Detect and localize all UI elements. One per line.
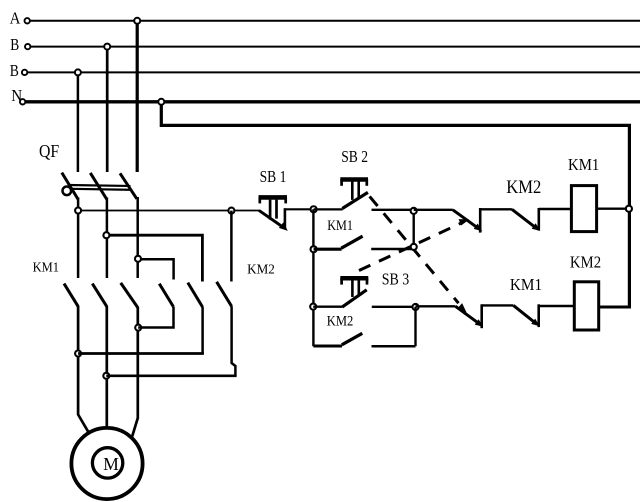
breaker QF pole 2 blade xyxy=(90,173,107,200)
node branch1 right top xyxy=(411,208,417,214)
button SB2 NO blade xyxy=(342,192,368,208)
wire motor link1 xyxy=(78,352,204,355)
node KM2 phase feed tap xyxy=(228,208,234,214)
terminal B xyxy=(25,44,30,49)
wire SB2 to node right xyxy=(372,209,414,211)
wire feed to KM2 pole 4 xyxy=(138,259,173,279)
svg-text:A: A xyxy=(10,9,21,28)
wire coil KM1 to neutral rail xyxy=(597,207,631,209)
wire feed to KM2 pole 6 xyxy=(230,211,233,282)
wire SB1 to node xyxy=(285,208,314,210)
wire to KM2 interlock xyxy=(480,208,512,210)
wire to KM1 aux xyxy=(314,248,342,251)
svg-text:B: B xyxy=(10,61,19,80)
button SB2 cap xyxy=(340,179,368,186)
node on bus C xyxy=(75,69,81,75)
wire to KM1 interlock xyxy=(482,304,514,306)
svg-text:QF: QF xyxy=(39,141,59,161)
wire motor lead left xyxy=(78,415,89,433)
wire branch1 left vertical xyxy=(312,209,314,346)
button SB1 plunger xyxy=(270,200,276,220)
button SB1 right terminal xyxy=(284,208,287,228)
svg-text:KM2: KM2 xyxy=(247,263,275,278)
bus B xyxy=(31,46,640,48)
button SB1 NC blade xyxy=(259,210,288,231)
button SB3 plunger xyxy=(352,280,358,297)
contact SB3 NC blade xyxy=(453,210,483,231)
button SB3 cap xyxy=(340,278,368,285)
contactor KM1 pole2 blade xyxy=(92,284,107,307)
node pole2 tap xyxy=(103,232,109,238)
breaker QF pole 1 blade xyxy=(62,173,78,200)
wire KM2 pole5 bottom xyxy=(201,307,204,354)
wire pole2 down to KM1 contact xyxy=(106,198,109,279)
wire branch1 right vertical xyxy=(413,210,415,249)
interlock contact KM2 NC terminal xyxy=(537,208,540,231)
wire to KM2 aux xyxy=(313,345,342,348)
svg-text:M: M xyxy=(103,454,119,474)
node on bus A xyxy=(134,18,140,24)
node pole3 tap xyxy=(135,256,141,262)
motor M inner circle xyxy=(92,448,122,478)
svg-text:N: N xyxy=(11,86,22,105)
wire pole1 down to KM1 contact xyxy=(77,198,80,279)
contact SB2 NC terminal xyxy=(480,304,483,328)
wire KM2 aux right xyxy=(372,345,416,348)
wire node to SB2 xyxy=(314,208,343,210)
terminal N xyxy=(20,99,25,104)
node branch2 left top xyxy=(310,304,316,310)
svg-text:KM1: KM1 xyxy=(33,259,59,274)
wire phase C drop xyxy=(77,72,80,172)
wire KM1 pole2 bottom xyxy=(105,306,108,429)
wire KM1 pole1 bottom xyxy=(77,306,80,415)
wire branch1 rail to SB3 NC xyxy=(414,209,453,211)
wire KM2 pole4 bottom cross link xyxy=(138,307,173,328)
wire SB3 to node right xyxy=(372,306,416,308)
node KM1 aux left xyxy=(311,246,317,252)
contact SB2 NC blade xyxy=(455,306,483,327)
contact SB3 NC terminal xyxy=(479,208,482,233)
wire control rail from pole1 xyxy=(78,210,259,212)
svg-text:KM2: KM2 xyxy=(570,253,601,272)
node branch2 right top xyxy=(412,304,418,310)
svg-text:KM2: KM2 xyxy=(327,314,354,330)
wire motor link2 xyxy=(106,374,236,377)
motor M outer circle xyxy=(71,428,142,499)
wire node to SB3 xyxy=(313,306,343,308)
contactor KM1 pole3 blade xyxy=(121,283,138,308)
node motor link1 xyxy=(75,351,81,357)
mechanical link SB2 dashed xyxy=(370,196,467,312)
wire branch2 right vertical xyxy=(414,307,416,346)
node branch1 right bottom xyxy=(411,244,417,250)
breaker QF linkage bar xyxy=(69,185,131,190)
svg-text:SB 1: SB 1 xyxy=(260,167,287,186)
svg-text:KM1: KM1 xyxy=(568,155,599,174)
node control tap pole1 xyxy=(75,208,81,214)
interlock contact KM1 NC terminal xyxy=(537,304,540,327)
svg-text:KM2: KM2 xyxy=(506,178,541,198)
bus N (neutral) xyxy=(26,100,640,103)
wire branch2 rail to SB2 NC xyxy=(416,305,456,307)
svg-text:KM1: KM1 xyxy=(327,218,353,234)
node on bus N xyxy=(158,99,164,105)
button SB2 plunger xyxy=(352,181,358,200)
contactor KM1 pole1 blade xyxy=(64,284,78,307)
node cross link xyxy=(135,325,141,331)
wire motor lead right xyxy=(132,418,138,436)
svg-text:SB 2: SB 2 xyxy=(341,147,368,166)
terminal C xyxy=(22,70,27,75)
wire feed to KM2 pole 5 xyxy=(107,235,202,281)
breaker QF handle loop xyxy=(63,187,72,196)
wire KM2 pole6 bottom xyxy=(232,306,236,376)
svg-text:B: B xyxy=(10,35,19,54)
svg-text:SB 3: SB 3 xyxy=(382,269,410,288)
wire phase B drop xyxy=(106,47,109,172)
wire neutral rail xyxy=(161,102,629,307)
button SB1 cap xyxy=(259,197,288,203)
mechanical link SB3 dashed xyxy=(359,219,469,270)
terminal A xyxy=(25,18,30,23)
wire to coil KM2 xyxy=(539,305,575,307)
bus A (phase A supply line) xyxy=(30,20,640,22)
interlock contact KM2 NC blade xyxy=(512,209,540,231)
contactor KM2 pole5 blade xyxy=(188,283,203,308)
node on bus B xyxy=(104,44,110,50)
interlock contact KM1 NC blade xyxy=(513,305,539,326)
wire phase A drop xyxy=(136,21,139,172)
coil KM2 xyxy=(574,282,598,330)
node motor link2 xyxy=(103,373,109,379)
contactor KM2 pole4 blade xyxy=(159,284,173,307)
svg-text:KM1: KM1 xyxy=(510,275,542,294)
wire coil KM2 to neutral rail xyxy=(599,306,631,309)
wire KM1 pole3 bottom xyxy=(136,307,139,419)
wire KM1 aux right xyxy=(371,248,414,250)
node branch1 left top xyxy=(311,206,317,212)
aux contact KM2 NO blade xyxy=(342,333,363,345)
wire pole3 down to KM1 contact xyxy=(136,197,139,278)
contactor KM2 pole6 blade xyxy=(217,282,232,307)
coil KM1 xyxy=(571,186,596,232)
wire to coil KM1 xyxy=(539,208,572,210)
node neutral rail xyxy=(626,206,632,212)
bus C xyxy=(28,71,640,73)
button SB3 NO blade xyxy=(342,290,366,307)
aux contact KM1 NO blade xyxy=(341,236,362,248)
breaker QF pole 3 blade xyxy=(120,173,137,199)
